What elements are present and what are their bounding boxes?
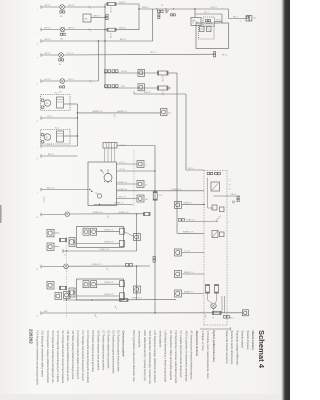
fuse F2.7 on riser x155	[153, 192, 157, 201]
bulb glyph 2b	[91, 281, 97, 288]
resistor lozenge end row1	[144, 212, 151, 215]
junction x155 ground	[154, 312, 155, 313]
switch arrow 2	[107, 169, 109, 174]
connector pair on node A riser	[106, 15, 108, 17]
node rail pin 1 (wire start, net BN to E9)	[40, 5, 42, 9]
small box in fusebox y205	[212, 205, 217, 210]
junction y190.8 x155	[154, 190, 155, 191]
svg-text:1 Przednia część nadwozia po: 1 Przednia część nadwozia pojazdu, lewa	[206, 331, 210, 380]
battery junction post 30	[246, 16, 249, 22]
svg-text:INS Wyświetlacz zestawu wskaź: INS Wyświetlacz zestawu wskaźników przed…	[174, 331, 178, 385]
wire C+ 2.5 y252.5	[182, 252, 204, 254]
node rail pin 3	[40, 39, 42, 43]
wire WH/BK 1.5 y112.9 riser to connector B1	[77, 112, 160, 114]
wire WH 1.5 lamp E8 to fuse F2.30	[65, 29, 107, 31]
fusebox dashed boundary left x204	[203, 170, 205, 325]
svg-text:Punkty podłączenia masy: Punkty podłączenia masy	[212, 331, 216, 363]
connector assembly1 right	[134, 234, 141, 241]
lamp indicator assembly2	[64, 264, 69, 269]
svg-text:E5: E5	[59, 64, 61, 66]
svg-text:10: 10	[36, 217, 38, 219]
wire YE 1.5 lamp E7 to riser x98	[65, 80, 99, 82]
wire YE 2.5 relay out	[215, 21, 223, 23]
lamp E8 high beam left	[60, 27, 65, 32]
svg-text:8: 8	[37, 159, 38, 161]
connector C on y73	[138, 69, 145, 76]
svg-text:WH 1.5: WH 1.5	[144, 92, 152, 94]
svg-text:WH 1.5: WH 1.5	[119, 28, 127, 30]
switch small rotary 2	[97, 194, 101, 198]
connector BK 1 y317	[224, 316, 227, 319]
wire riser x77.4 M1 return	[76, 104, 78, 146]
wire vertical node A x=103	[104, 4, 106, 88]
wire BN 1 ground rail y313	[41, 312, 243, 314]
connector pair b on y73	[112, 70, 115, 73]
svg-text:CC Lampka kontrolna świateł d: CC Lampka kontrolna świateł drogowych	[179, 331, 183, 379]
junction riser y136	[77, 135, 78, 136]
wire BN 1.75 rail pin9 to switch	[41, 189, 88, 191]
junction arrow a2	[106, 268, 107, 269]
svg-text:K2.2: K2.2	[55, 128, 59, 130]
lamp E9 high beam right	[60, 5, 65, 10]
connector A1 y198.5	[137, 195, 144, 202]
connector assembly2 right	[134, 286, 141, 293]
svg-text:YE 1.5: YE 1.5	[68, 79, 75, 81]
svg-text:226202: 226202	[29, 329, 34, 344]
fuse F in box a	[206, 285, 210, 294]
svg-text:7: 7	[90, 9, 91, 11]
connector below lamp E7	[59, 86, 61, 88]
svg-text:YE 0.5: YE 0.5	[121, 71, 128, 73]
svg-text:WH/BK 1.5: WH/BK 1.5	[117, 111, 128, 113]
svg-text:1: 1	[37, 10, 38, 12]
dashed sub-box inside equipment box	[199, 25, 215, 39]
node rail pin 8	[40, 154, 42, 158]
svg-text:Oznaczenia urządzeń: Oznaczenia urządzeń	[122, 331, 126, 358]
wire WH 1.5 fuse F2.30 to corner x139	[116, 29, 139, 31]
wire lamp to end lozenge y214	[70, 213, 144, 215]
dashed aux box right of relay F2.4	[203, 17, 215, 27]
svg-text:YE 1.5: YE 1.5	[150, 52, 157, 54]
svg-text:1: 1	[206, 317, 207, 319]
wire vertical pair right	[221, 296, 223, 313]
connector pair on row4 right	[213, 52, 215, 54]
svg-text:GYBK 0.75: GYBK 0.75	[92, 264, 103, 266]
svg-text:2: 2	[37, 32, 38, 34]
pin box 1b	[120, 240, 125, 246]
svg-text:BR/BK 2.5: BR/BK 2.5	[184, 272, 194, 274]
relay K diagonal	[212, 183, 219, 190]
junction row3/x98 riser	[98, 40, 99, 41]
connector C4 y164	[137, 161, 144, 168]
svg-text:GYBK 2.5: GYBK 2.5	[184, 202, 194, 204]
switch glyph y233	[212, 231, 218, 238]
svg-text:7: 7	[108, 270, 109, 272]
leveling actuator M1 dashed enclosure	[41, 95, 70, 111]
junction y171 x155	[154, 170, 155, 171]
svg-text:BN 2.5: BN 2.5	[45, 39, 52, 41]
lamp E5 low beam right	[59, 53, 64, 58]
svg-text:BK 0.75: BK 0.75	[119, 197, 127, 199]
svg-text:YE 1.5: YE 1.5	[67, 53, 74, 55]
motor M1 drive box	[57, 97, 64, 108]
junction ret2 ground	[66, 299, 67, 300]
wire riser x186 down to row y170	[185, 94, 187, 170]
svg-text:GY 1.5: GY 1.5	[119, 162, 126, 164]
left fuse cluster1 connector a	[47, 229, 54, 237]
svg-text:9: 9	[37, 192, 38, 194]
switch contact diagonal y221	[204, 221, 215, 223]
connector glyph y293	[175, 290, 182, 297]
left cluster2 fuse	[60, 286, 67, 289]
node rail pin 11	[40, 265, 42, 269]
wire M2 return y146 to rail	[41, 145, 77, 147]
connector pair on y73	[105, 70, 108, 73]
svg-text:6: 6	[37, 121, 38, 123]
svg-text:ADS Urządzenie do hamowania a: ADS Urządzenie do hamowania awaryjnego	[184, 331, 188, 382]
wire switch bottom y204.5	[94, 204, 134, 206]
wire BN 1.5 rail pin4 to lamp E5	[41, 54, 59, 56]
fuse lozenge on ground rail	[213, 311, 222, 314]
switch arrow 1	[101, 170, 105, 174]
svg-text:S2.4 Przełącznik świateł drog: S2.4 Przełącznik świateł drogowych i mij…	[56, 331, 60, 383]
svg-text:F2.36: F2.36	[161, 77, 163, 82]
node rail pin 9	[40, 188, 42, 192]
component glyph B inside equipment box	[207, 27, 212, 32]
svg-text:KD Oświetlenie tablicy przyrz: KD Oświetlenie tablicy przyrządów pojazd…	[169, 331, 173, 381]
aux box in fusebox y207	[220, 207, 225, 212]
left fuse cluster2 connector a	[47, 282, 54, 290]
bulb glyph 2a	[83, 281, 89, 288]
svg-text:GYBK 0.75: GYBK 0.75	[132, 298, 143, 300]
svg-text:GYBK 0.75: GYBK 0.75	[104, 242, 113, 244]
wire inside lamp1 row b	[77, 243, 120, 245]
node rail pin 10	[40, 213, 42, 217]
switch rotary symbol	[104, 174, 112, 182]
relay K2 pins below	[158, 14, 160, 16]
motor M1 pins left	[42, 99, 44, 101]
wire row y9 corner down x228.5	[228, 9, 230, 19]
junction dots at switch input	[89, 189, 91, 191]
junction arrow 2 y112.9	[114, 115, 115, 116]
wire WH 1.5 y94 jog	[133, 91, 135, 94]
wire drop x136.5 assembly1	[136, 214, 138, 251]
wire BR/BK 0.5 y293.5	[182, 293, 204, 295]
wire y88 fuse end	[168, 87, 171, 89]
connector pair on y88	[105, 85, 108, 88]
svg-text:Objaśnienie skrótów: Objaśnienie skrótów	[195, 331, 199, 357]
wire drop x136.5 assembly2	[136, 266, 138, 300]
svg-text:Obwód zasilany: Obwód zasilany	[251, 331, 255, 351]
relay F2.4 coil marks	[193, 20, 199, 24]
svg-text:strony pojazdu: strony pojazdu	[138, 331, 142, 348]
svg-text:S2.6 Regulator zasięgu reflek: S2.6 Regulator zasięgu reflektorów przed…	[46, 331, 50, 384]
fuse F2.38	[107, 3, 116, 6]
svg-text:7: 7	[37, 149, 38, 151]
svg-text:K2: K2	[161, 5, 163, 7]
junction node A3	[104, 17, 105, 18]
svg-text:YE 2.5: YE 2.5	[119, 169, 126, 171]
left cluster1 wire a	[54, 232, 60, 234]
wire inside lamp1 row a	[97, 231, 120, 233]
svg-text:WH 1.5: WH 1.5	[68, 28, 76, 30]
wire fuse feed F2.38	[105, 3, 107, 5]
svg-text:YE 2.5: YE 2.5	[188, 168, 195, 170]
svg-text:GY/BK 0.75: GY/BK 0.75	[171, 189, 182, 191]
svg-text:F2.7: F2.7	[159, 195, 163, 197]
svg-text:3 Słupek „A” lewy: 3 Słupek „A” lewy	[201, 331, 205, 352]
motor M1 circle	[44, 100, 50, 106]
svg-text:RD 2.5: RD 2.5	[211, 7, 218, 9]
pin box 1a	[120, 228, 125, 234]
svg-text:M1 Silnik regulacji reflektor: M1 Silnik regulacji reflektora lewego pr…	[71, 331, 75, 381]
wire bottom return assembly1	[63, 250, 137, 252]
wire inside lamp2 row b	[77, 295, 120, 297]
wire M1 out y104 to riser x77.4	[64, 103, 78, 105]
svg-text:1: 1	[96, 317, 97, 319]
svg-text:11: 11	[36, 269, 38, 271]
wire BN 1.5 rail pin1 to lamp E9	[41, 6, 60, 8]
junction ground rail x96	[95, 315, 96, 316]
svg-text:BN 1.5: BN 1.5	[45, 5, 52, 7]
wire BN/BK 0.75 y233 riser x177 to fusebox	[177, 232, 204, 234]
wire y208 jog	[208, 207, 214, 209]
svg-text:GYBK 0.75: GYBK 0.75	[104, 230, 113, 232]
block pin stubs	[104, 148, 106, 162]
wire switch out YE 2.5 y171 to riser x155	[117, 170, 156, 172]
wire BN 2.5 rail pin3 long to relay riser	[41, 40, 153, 42]
lamp indicator assembly1	[65, 212, 70, 217]
svg-text:BRA Sygnalizator włączenia re: BRA Sygnalizator włączenia reflektorów o…	[132, 331, 136, 383]
wire RD feed row y9 relay rail	[139, 8, 229, 10]
junction node A2	[104, 29, 105, 30]
wire fuse a to lamp	[207, 293, 209, 300]
wire corner x222 down to box top	[221, 14, 223, 23]
connector B3 y184	[137, 181, 144, 188]
pin dots y221	[216, 221, 217, 222]
wire switch out BU/BK 0.5 y184	[117, 183, 138, 185]
wire riser x155 down to bottom rail	[154, 146, 156, 314]
wire branch y73 node A to fuse F2.36	[105, 72, 158, 74]
wire WH 0.5 fuse F2.38 to corner x139	[116, 3, 139, 5]
junction riser x77.4 y118	[77, 117, 78, 118]
junction node A y73	[104, 72, 105, 73]
wire RD 1 relay to corner x222	[195, 13, 222, 15]
svg-text:AT Automatyczna skrzynia bieg: AT Automatyczna skrzynia biegów pojazdu	[190, 331, 194, 381]
svg-text:BN 1.5: BN 1.5	[45, 28, 52, 30]
dashed boundary line x134	[133, 150, 135, 207]
dashed ground line x66.5	[66, 237, 68, 318]
connector pair b on y88	[112, 85, 115, 88]
tiny circle label y202	[232, 201, 234, 203]
relay F2.4 box	[191, 18, 201, 26]
junction arrow 7 row5	[90, 80, 91, 81]
svg-text:K2 Przekaźnik świateł mijania: K2 Przekaźnik świateł mijania i drogowyc…	[76, 331, 80, 380]
svg-text:MUT Wyświetlacz wielofunkcyjn: MUT Wyświetlacz wielofunkcyjny zestawu w…	[148, 331, 152, 385]
svg-text:LHD Układ kierowniczy z lewej: LHD Układ kierowniczy z lewej strony prz…	[164, 331, 168, 384]
node rail pin 5	[40, 79, 42, 83]
wire BN 1.5 rail pin2 to lamp E8	[41, 29, 60, 31]
svg-text:YE 2.5: YE 2.5	[216, 20, 223, 22]
junction drop2	[136, 265, 137, 266]
wire switch out BK 0.75 y198.5	[117, 198, 138, 200]
wire YE 2.5 riser x186 corner to fusebox y170	[186, 169, 204, 171]
left cluster1 wire b	[54, 246, 60, 248]
junction y9 x195	[194, 8, 195, 9]
svg-text:F2.6: F2.6	[161, 92, 163, 96]
svg-text:S10 Wyłącznik oświetlenia tab: S10 Wyłącznik oświetlenia tablicy rejest…	[41, 331, 45, 378]
svg-text:K2.1: K2.1	[55, 93, 59, 95]
junction riser y112.9	[77, 112, 78, 113]
bulb glyph 1a	[83, 228, 89, 235]
wire fuse b to lamp	[216, 293, 218, 300]
wire branch y88 node A to fuse F2.6	[105, 87, 158, 89]
svg-text:12: 12	[36, 316, 38, 318]
svg-text:E9: E9	[60, 16, 62, 18]
wire y73 fuse to riser x177	[168, 72, 177, 74]
junction ret2 mid	[91, 299, 92, 300]
connector pair y266	[126, 263, 129, 266]
component glyph A inside equipment box	[200, 27, 205, 32]
wire inside lamp2 row a	[97, 283, 120, 285]
svg-text:GY/BK 1.5: GY/BK 1.5	[114, 203, 124, 205]
svg-text:GYBK 0.5: GYBK 0.5	[186, 220, 196, 222]
wire switch out GY 1.5 y164	[117, 163, 138, 165]
svg-text:7: 7	[109, 218, 110, 220]
connector out y196	[237, 197, 239, 199]
svg-text:7: 7	[91, 83, 92, 85]
bulb glyph 1b	[91, 228, 97, 235]
junction marks y305	[115, 306, 116, 307]
junction row3/node A	[104, 40, 105, 41]
connector mark at fusebox edge y204	[203, 204, 205, 206]
svg-text:E7: E7	[60, 92, 62, 94]
junction arrow a1	[107, 216, 108, 217]
wire riser x98 row5 to row3	[97, 41, 99, 81]
connector pair on riser x155	[153, 257, 155, 259]
connector glyph y204	[175, 201, 182, 208]
fusebox dashed top edge	[204, 169, 227, 171]
svg-text:30: 30	[229, 185, 231, 187]
motor M2 drive hatch	[57, 133, 64, 135]
svg-text:F2.7 Bezpiecznik świateł drog: F2.7 Bezpiecznik świateł drogowych lewyc…	[81, 331, 85, 382]
terminal mark left ret1	[62, 249, 64, 253]
ground connector right end	[243, 310, 249, 316]
fuse F2.30	[107, 28, 116, 31]
fusebox dashed boundary right x227	[226, 170, 228, 325]
leveling actuator M2 dashed enclosure	[41, 130, 70, 145]
svg-text:BK 1: BK 1	[230, 318, 234, 320]
node rail pin 4	[40, 53, 42, 57]
switch contact dots	[104, 181, 105, 182]
wire stub y329	[200, 328, 231, 330]
svg-text:GY/BK 0.5: GY/BK 0.5	[118, 189, 128, 191]
fuse F2.6	[158, 86, 169, 90]
wire relay out to connector RD 4	[214, 195, 241, 197]
motor M1 drive hatch	[57, 99, 64, 101]
svg-text:YE 2.5: YE 2.5	[222, 55, 229, 57]
wire YE 1.5 lamp E5 to connector pair right	[63, 53, 213, 56]
pin box 2a	[120, 281, 125, 287]
node rail pin 6	[40, 116, 42, 120]
svg-text:strony pojazdu: strony pojazdu	[158, 331, 162, 348]
light switch S2.1 box	[88, 162, 117, 206]
svg-text:RHD Układ kierowniczy z prawe: RHD Układ kierowniczy z prawej strony ty…	[143, 331, 147, 382]
svg-text:BN 1.5: BN 1.5	[45, 53, 52, 55]
headlamp unit 1 box	[77, 227, 124, 248]
connector D on y88	[138, 84, 145, 91]
svg-text:7: 7	[116, 309, 117, 311]
junction x139 y9	[138, 8, 139, 9]
svg-text:Regulacja zasięgu reflektorów: Regulacja zasięgu reflektorów	[235, 331, 239, 366]
svg-text:50: 50	[229, 189, 231, 191]
lamp E7 low beam left	[60, 79, 65, 84]
svg-text:GYBK 0.75: GYBK 0.75	[119, 212, 130, 214]
svg-text:F2.4 Przekaźnik świateł drogo: F2.4 Przekaźnik świateł drogowych przedn…	[86, 331, 90, 384]
svg-text:4: 4	[37, 58, 38, 60]
fuse F2.36	[158, 71, 169, 75]
node rail pin 2	[40, 28, 42, 32]
svg-text:BN 1.75: BN 1.75	[47, 188, 55, 190]
left fuse cluster2 connector b	[55, 293, 62, 300]
wire lamp to ground rail	[213, 308, 215, 312]
connector ground glyph1	[69, 238, 75, 247]
wire WH 1.5 lamp E9 to vertical node A	[64, 6, 105, 8]
svg-text:x: x	[241, 21, 242, 23]
relay pins pair a in fusebox	[207, 172, 209, 174]
wire BR/BK 2.5 y274	[182, 273, 204, 275]
svg-text:GYBK 0.75: GYBK 0.75	[99, 249, 110, 251]
wire GY/BK 0.75 rail pin10 to lamp	[41, 214, 65, 216]
pin box 2b	[120, 293, 125, 299]
junction ground rail x205	[205, 315, 206, 316]
left fuse cluster1 connector b	[47, 243, 54, 251]
svg-text:GYBK 0.75: GYBK 0.75	[104, 294, 113, 296]
svg-text:WH/BK 1.5: WH/BK 1.5	[93, 111, 104, 113]
node rail pin 7	[40, 144, 42, 148]
wire BU 1.5 rail pin5 to lamp E7	[41, 80, 60, 82]
svg-text:Schemat 4: Schemat 4	[257, 330, 266, 369]
wire M1 return y118 to rail	[41, 117, 77, 119]
equipment box outline top right	[196, 23, 229, 49]
wire riser x207.5 in fusebox	[207, 178, 209, 209]
connector pair y221	[179, 219, 182, 222]
wire RD 4 to battery junction	[229, 18, 247, 20]
switch arrow head	[101, 170, 103, 172]
svg-text:BR/BK 0.5: BR/BK 0.5	[184, 292, 194, 294]
connector pins below lamp E5	[59, 59, 61, 61]
motor M2 drive box	[57, 131, 64, 142]
svg-text:WH 0.5: WH 0.5	[94, 15, 102, 17]
svg-text:LVS Regulacja zasięgu reflekt: LVS Regulacja zasięgu reflektorów przedn…	[153, 331, 157, 384]
wire M2 out y136 to riser	[64, 135, 78, 137]
wire GY/BK rail pin11 to lamp2	[41, 266, 64, 268]
control unit BS daylight module	[83, 14, 91, 22]
instrument connector block	[103, 143, 117, 149]
connector ground glyph2	[69, 288, 75, 297]
wire BN 1.5 rail pin8 stub	[41, 155, 77, 157]
svg-text:2: 2	[115, 117, 116, 119]
connector glyph y274	[175, 271, 182, 278]
aux box in fusebox y232	[220, 232, 225, 237]
connector glyph y252	[175, 249, 182, 256]
wire riser x177 down to row y233	[176, 73, 178, 233]
svg-text:2: 2	[90, 31, 91, 33]
connector B1	[161, 109, 168, 116]
wire GYBK 0.5 y221.5	[185, 221, 204, 223]
svg-text:2C632: 2C632	[43, 197, 45, 204]
connector pins below lamp E9	[60, 11, 62, 13]
